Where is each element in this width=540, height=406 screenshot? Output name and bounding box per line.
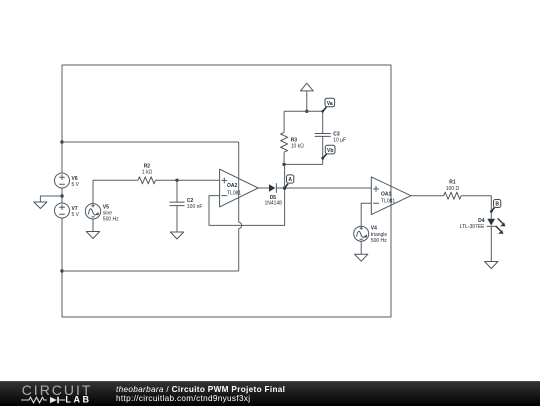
wire R1 to LED [461, 196, 491, 219]
svg-text:sine: sine [103, 210, 112, 216]
wire R2 to OA2 + input [156, 179, 220, 181]
LED emission arrows [498, 218, 503, 223]
wire OA2 V- branch horizontal [62, 270, 239, 272]
op-amp OA2 TL081 [220, 169, 259, 207]
svg-text:R1: R1 [449, 180, 456, 186]
node junction dot (306.8,111.3) [305, 110, 308, 113]
svg-text:5 V: 5 V [72, 212, 80, 218]
node junction dot (177,180.3) [175, 179, 178, 182]
resistor R3 [281, 111, 305, 164]
svg-text:10 µF: 10 µF [333, 138, 346, 144]
svg-text:1N4148: 1N4148 [264, 201, 282, 207]
svg-text:triangle: triangle [371, 232, 388, 238]
wire LED to ground [490, 226, 492, 261]
node junction dot (62,142) [60, 140, 63, 143]
capacitor C3 [315, 111, 346, 164]
svg-text:500 Hz: 500 Hz [103, 217, 119, 223]
svg-text:V4: V4 [371, 226, 377, 232]
svg-text:Va: Va [327, 101, 333, 107]
voltage source V4 (triangle) [354, 226, 388, 244]
svg-text:500 Hz: 500 Hz [371, 238, 387, 244]
svg-text:B: B [495, 202, 499, 208]
bottom CircuitLab banner [0, 381, 540, 406]
wire R3/C3 bottom [284, 163, 323, 165]
svg-text:V7: V7 [72, 206, 78, 212]
voltage source V5 (sine) [85, 180, 138, 222]
svg-text:C3: C3 [333, 131, 340, 137]
svg-text:OA1: OA1 [381, 192, 392, 198]
svg-text:V5: V5 [103, 204, 109, 210]
svg-text:Vb: Vb [327, 148, 333, 154]
node junction dot (62,271) [60, 269, 63, 272]
wire D5 to OA1 + input [276, 187, 371, 189]
wire R3/C3 top [284, 110, 323, 112]
node Vb flag [321, 145, 335, 159]
node junction dot (284.1,164.4) [282, 163, 285, 166]
wire OA1 - input to V4 [361, 203, 371, 226]
wire OA2 feedback (- input, down, right with hop, up to node A) [209, 188, 285, 225]
svg-text:OA2: OA2 [227, 183, 238, 189]
capacitor C2 [170, 180, 203, 232]
svg-text:TL081: TL081 [381, 198, 395, 204]
wire outer supply loop: V6+ up, top rail, OA1 supply vertical, bottom rail, back to V7- [62, 65, 391, 317]
voltage source V6 [55, 173, 80, 188]
svg-text:100 nF: 100 nF [187, 204, 203, 210]
node junction dot (62,196) [60, 194, 63, 197]
svg-text:A: A [288, 177, 292, 183]
svg-text:5 V: 5 V [72, 182, 80, 188]
CircuitLab logo [0, 382, 110, 406]
svg-text:R3: R3 [291, 137, 298, 143]
wire V6 bottom to junction to V7 top [61, 188, 63, 203]
+V supply arrow above R3/C3 [300, 83, 313, 111]
ground below C2 [170, 232, 183, 239]
diode D5 1N4148 [264, 183, 282, 206]
node Va flag [321, 98, 334, 112]
wire OA1 output to R1 [411, 195, 444, 197]
ground at V6/V7 midpoint [34, 196, 62, 209]
ground below V5 [86, 219, 99, 239]
svg-text:1 kΩ: 1 kΩ [142, 170, 153, 176]
wire OA2 V+ branch horizontal [62, 141, 239, 143]
ground below V4 [355, 241, 368, 261]
wire OA2 output to D5 [258, 187, 269, 189]
svg-text:10 kΩ: 10 kΩ [291, 143, 304, 149]
resistor R2 [138, 164, 156, 184]
node A flag [283, 175, 294, 190]
svg-text:100 Ω: 100 Ω [446, 186, 460, 192]
ground below LED [485, 262, 498, 269]
LED D4 LTL-307EE [460, 218, 506, 234]
wire node A vertical (R3/C3 bottom to output) [284, 164, 286, 188]
node B flag [490, 200, 501, 213]
voltage source V7 [55, 203, 80, 218]
svg-text:TL081: TL081 [227, 191, 241, 197]
svg-text:LTL-307EE: LTL-307EE [460, 224, 486, 230]
svg-text:LAB: LAB [65, 394, 91, 404]
svg-text:V6: V6 [72, 176, 78, 182]
op-amp OA1 TL081 [371, 177, 411, 215]
wire OA2 supply vertical [238, 142, 240, 222]
resistor R1 [444, 180, 462, 200]
